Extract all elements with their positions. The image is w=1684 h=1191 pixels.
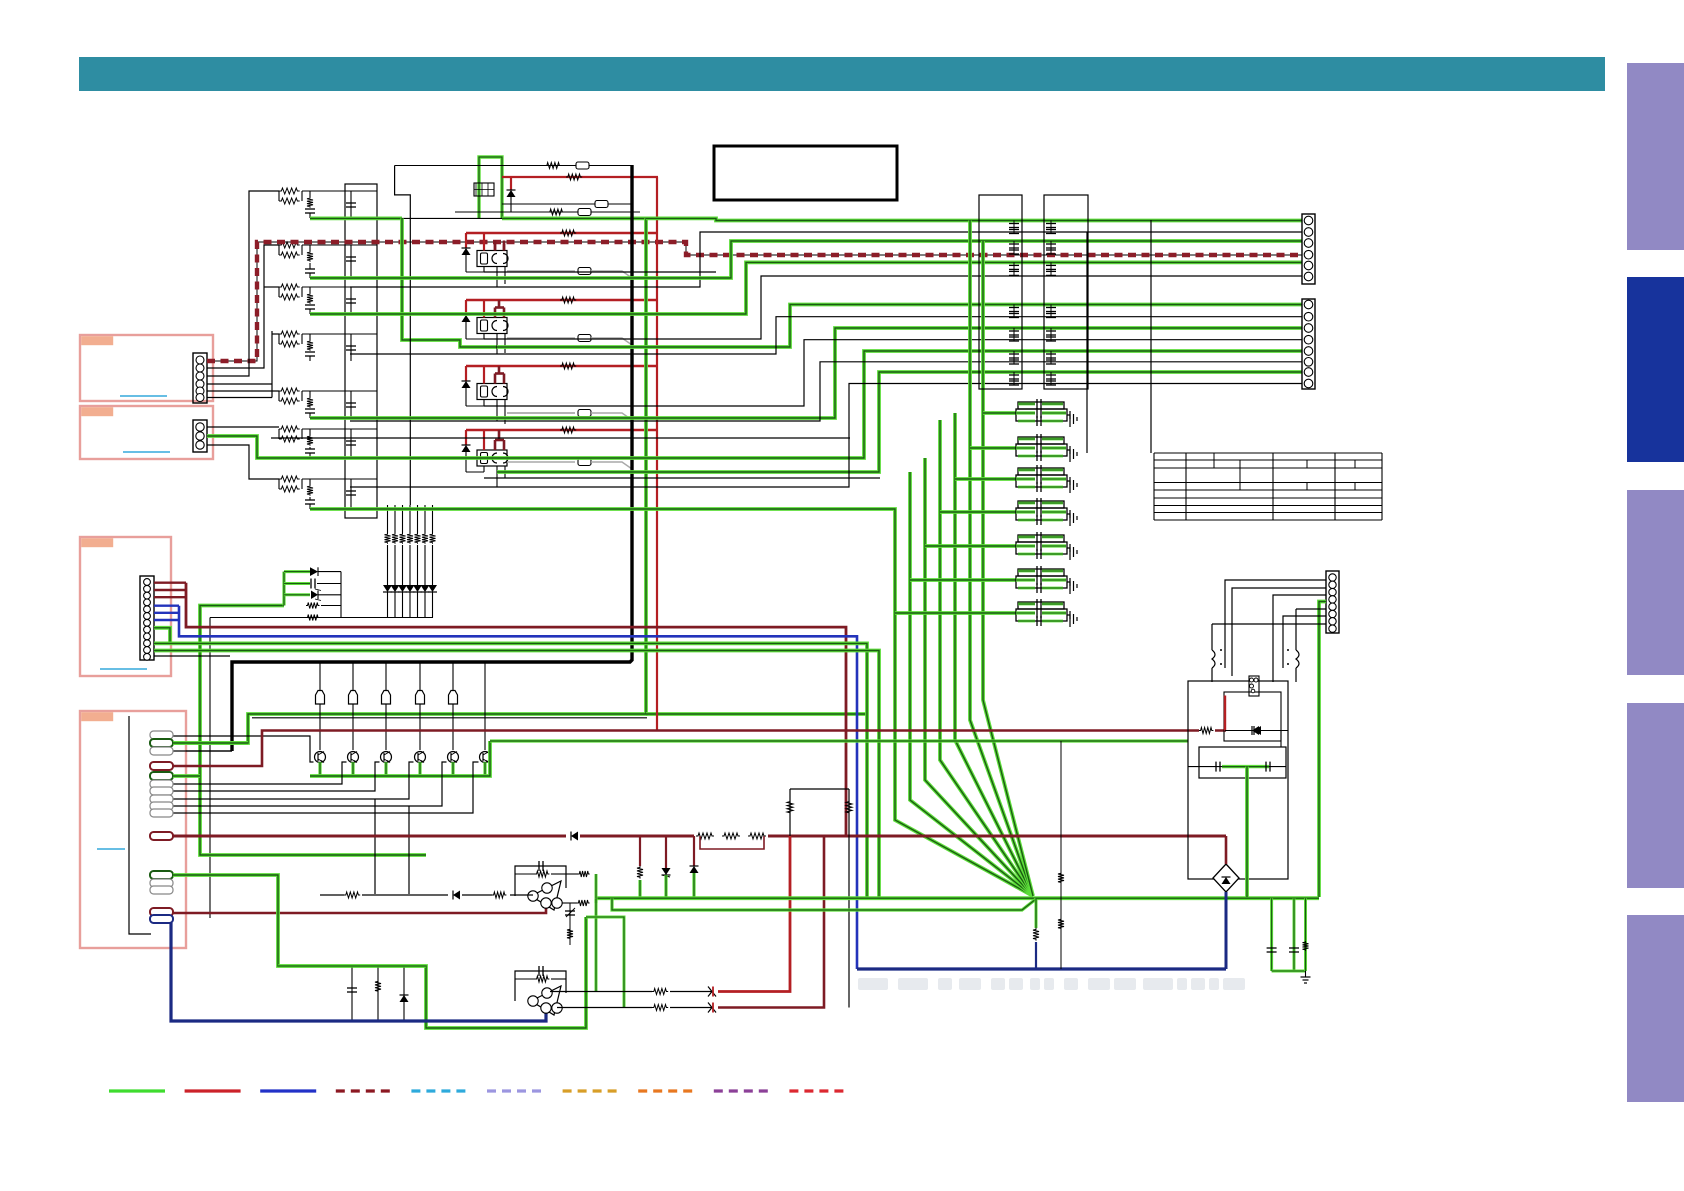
connector CN3 pin 4 [144,599,151,606]
FL3 ground [1067,481,1070,485]
protection zener [311,591,318,600]
upper connector pin 3 [1304,239,1313,248]
maroon wire CN4 system A [173,731,1226,767]
green bus y898 [596,896,1319,900]
filter tap 2 [970,446,1016,450]
RC ch2 node wire [302,244,377,246]
connector CN1 pin 3 [196,372,204,380]
relay ch1 maroon taps from dashed line [494,244,497,251]
connector CN3 pin 2 [144,585,151,592]
title box [714,146,897,200]
upper connector pin 1 [1304,216,1313,225]
sidebar tab 4 [1627,703,1684,888]
bank capacitor at x1051 row 2 [1050,241,1052,254]
protection collector [340,572,342,618]
sidebar tab 5 [1627,915,1684,1102]
snubber parts between green and navy [351,966,353,1021]
RC filter network ch5 resistor pair [279,388,300,394]
speaker relay RY2 box [477,318,507,334]
Q5 emitter to green rail [451,762,454,776]
protection diode [310,567,318,576]
shared NF net vertical [271,331,273,398]
callout box CN4 (pink) [80,711,186,948]
ladder leg 6 diode [421,585,430,592]
connector CN1 pin 4 [196,380,204,388]
relay RY1 gray sense wire [507,270,575,272]
ladder leg 5 wire [417,505,419,533]
CN7 wires [1225,580,1326,645]
green trunk row extension to fan side [646,712,867,716]
base wire Q4 [173,762,414,799]
op-amp IC1b feedback resistor [515,978,535,980]
RC ch7 bus capacitor [350,479,352,509]
teal header bar [79,57,1605,91]
navy wire from CN4 [171,923,546,1021]
connector CN3 pin 12 [144,653,151,660]
wire L8 black [350,384,1302,488]
EMI filter FL4 [1018,501,1064,508]
green drop from inner box [1245,767,1249,897]
bank capacitor at x1051 row 6 [1050,351,1052,364]
y837 reverse diode [566,830,580,843]
connector CN1 pin 2 [196,364,204,372]
ladder leg 4 wire [409,505,411,533]
bank capacitor at x1014 row 7 [1013,372,1015,385]
upper connector pin 5 [1304,261,1313,270]
fan wire 2 [910,472,1033,896]
RC ch1 node wire [302,190,377,192]
legend item 3 [260,1089,316,1092]
relay RY3 contact legs [496,400,498,422]
wire L5 green [310,351,1302,458]
filter tap 6 [910,578,1016,582]
red link inside block [1224,696,1226,731]
CN1 signal wires to RC column [207,245,279,368]
ladder leg 2 diode [391,585,400,592]
ladder leg 7 wire [432,505,434,533]
wire U3 green [310,241,1302,278]
staircase from muting row to ladder [395,166,411,506]
fan wire 5 [955,413,1033,896]
vertical wire x1151 [1150,220,1152,453]
maroon y731 diode [1247,725,1263,736]
filter tap 1 [983,411,1016,415]
driver diode line [1225,730,1281,732]
relay RY2 top red feed [466,299,658,301]
speaker connector lower [1302,299,1315,389]
relay RY4 contact legs [496,466,498,487]
upper connector pin 2 [1304,228,1313,237]
relay RY1 contact feeds (maroon) [494,241,497,251]
riser from fan point [1035,899,1038,928]
red dropper from feed A [718,836,790,992]
ladder leg 1 resistor [385,533,391,544]
CN3 ground stub [154,655,230,657]
op-amp IC1a feedback capacitor [515,866,566,896]
bank capacitor at x1051 row 3 [1050,262,1052,275]
green wire CN4 c [173,741,248,745]
CN2 green source wire [207,436,310,458]
RC ch5 node wire [302,390,377,392]
bank capacitor at x1014 row 1 [1013,221,1015,234]
CN7 pin 7 [1329,618,1336,625]
transistor Q6 [480,752,491,763]
bank capacitor at x1014 row 4 [1013,305,1015,318]
CN4 pin 10 [150,809,173,817]
legend item 9 [714,1089,770,1092]
bank capacitor at x1014 row 5 [1013,328,1015,341]
relay RY2 contact feeds (maroon) [494,308,497,318]
wire L7 green [497,372,1302,472]
EMI filter FL3 [1018,468,1064,475]
ladder leg 1 wire [387,505,389,533]
wire L6 black [350,362,1302,421]
RC ch1 bus capacitor [350,191,352,218]
connector CN1 pin 1 [196,356,204,364]
connector CN3 header [140,576,154,660]
black row full width upper [271,437,850,439]
transistor Q3 [381,752,392,763]
protection network green bus [200,606,426,856]
fan wire 3 [925,458,1033,896]
ladder leg 3 resistor [400,533,406,544]
black row ch1b stub [350,286,497,288]
CN4 pin 2 [150,739,173,747]
filter tap 7 [895,611,1016,615]
protection resistor [306,603,320,609]
RC ch6 bus capacitor [350,429,352,458]
gray sense rows 3/4 helper [507,412,575,414]
relay RY4 gray sense wire [507,461,575,463]
green row to fan1 [310,509,895,511]
base wire Q3 [173,762,380,791]
legend item 2 [185,1089,241,1092]
relay RY1 top red feed [466,232,658,234]
relay RY4 resistor leg [483,466,485,472]
FL4 ground [1067,514,1070,518]
connector CN3 pin 8 [144,626,151,633]
wire L4 black [484,340,1302,406]
driver line Q4 [419,662,421,750]
lower connector pin 2 [1304,312,1313,321]
connector CN2 header [193,420,207,452]
connector CN1 header [193,353,207,403]
choke L1 [1212,650,1215,668]
CN3 blue bundle wire [154,605,179,607]
green dropper to comparator row A [595,903,598,992]
long paired row y741 [490,739,1188,742]
parts table inner verticals [1213,453,1215,468]
bleeder chain x1061 [1060,741,1062,969]
relay RY1 coil diode [462,248,471,255]
black companion of green trunk [252,717,647,719]
connector CN3 pin 9 [144,633,151,640]
ladder leg 1 diode [383,585,392,592]
relay RY2 resistor leg [483,334,485,340]
ladder leg 7 diode [428,585,437,592]
filter tap 3 [955,477,1016,481]
maroon sense y913 to comparator [173,907,546,913]
ladder leg 6 wire [424,505,426,533]
bank capacitor at x1014 row 6 [1013,351,1015,364]
CN4 pin 6 [150,780,173,788]
connector CN3 pin 5 [144,606,151,613]
FL2 ground [1067,450,1070,454]
ladder leg 4 resistor [407,533,413,544]
filter tap 4 [940,510,1016,514]
base wire Q2 [173,762,347,784]
base wire Q1 [173,736,314,762]
maroon y731 resistor [1199,726,1215,735]
relay RY3 contact feeds (maroon) [494,374,497,384]
bracket inside CN4 [129,716,151,934]
CN4 pin 3 [150,747,173,755]
op-amp IC1a [531,881,561,910]
muting green output [310,216,402,220]
RC ch5 shunt resistor + capacitor [309,391,311,397]
legend item 8 [638,1089,694,1092]
RC filter network ch3 resistor pair [279,284,300,290]
wire U5 green [310,262,1302,314]
muting wire row1 (black) [395,165,632,167]
CN4 pin 16 [150,915,173,923]
green link 917 [586,917,624,1008]
collector drop wire [209,618,211,919]
red trunk [656,177,658,731]
relay RY2 contact legs [496,334,498,355]
protection capacitor [310,579,312,589]
vertical wire x1087 [1086,232,1088,453]
bank capacitor at x1051 row 7 [1050,372,1052,385]
RC filter network ch1 resistor pair [279,188,300,194]
wire L1 green [497,305,1302,348]
input capacitor bus box [345,184,377,518]
upper connector pin 6 [1304,272,1313,281]
FL1 ground [1067,415,1070,419]
driver line Q3 [385,662,387,750]
EMI filter FL7 [1018,602,1064,609]
ladder leg 5 diode [413,585,422,592]
lower connector pin 6 [1304,358,1313,367]
ladder leg 3 diode [398,585,407,592]
EMI filter FL5 [1018,535,1064,542]
output caps under green bus [1270,898,1273,971]
muting mini connector [474,183,494,196]
relay RY1 contact legs [496,267,498,288]
RC filter network ch6 resistor pair [279,426,300,432]
output block driver box [1224,692,1281,741]
IC1a feedback row to green riser [566,873,578,875]
parts table [1154,452,1382,454]
ladder leg 2 wire [394,505,396,533]
connector CN7 [1326,571,1339,633]
wire U2 black [497,232,1302,287]
EMI filter FL6 [1018,569,1064,576]
maroon dropper from feed B [718,836,824,1008]
relay RY4 top red feed [466,429,658,431]
y837 series resistors [694,828,768,844]
CN7 pin 4 [1329,596,1336,603]
CN7 green wire [1319,602,1326,898]
second fan feeder y910 [612,898,1036,910]
green y966 branch [278,964,426,967]
op-amp IC1a output row [320,894,533,896]
relay RY3 gray sense wire [507,412,575,414]
faint watermark [858,978,1245,990]
EMI filter FL1 [1018,402,1064,409]
CN7 pin 5 [1329,603,1336,610]
ladder leg 4 diode [406,585,415,592]
speaker relay RY3 box [477,384,507,400]
op-amp IC1a feedback resistor [515,873,535,875]
connector CN3 pin 1 [144,579,151,586]
CN7 pin 6 [1329,610,1336,617]
ladder leg 6 resistor [422,533,428,544]
connector CN2 pin 2 [196,432,204,440]
bias network [790,788,849,790]
filter tap 5 [925,544,1016,548]
lower connector pin 5 [1304,347,1313,356]
sidebar tab 2 (active dark blue) [1627,277,1684,462]
capacitor bank box 2 [1044,195,1088,389]
speaker relay RY4 box [477,450,507,466]
CN4 pin 14 [150,886,173,894]
muting wire row2 (red) [502,176,658,178]
relay RY3 resistor leg [483,400,485,407]
green drop to relay2 row [402,218,497,347]
RC filter network ch7 resistor pair [279,476,300,482]
callout box CN1 (pink) [80,335,213,401]
RC ch3 bus capacitor [350,287,352,314]
muting relay diode [510,177,512,190]
RC ch7 node wire [302,478,377,480]
CN4 pin 12 [150,871,173,879]
ladder leg 2 resistor [392,533,398,544]
lower connector pin 4 [1304,335,1313,344]
legend item 6 [487,1089,543,1092]
CN4 pin 4 [150,762,173,770]
Q6 emitter to green rail [483,762,486,776]
comparator output rows [550,991,713,993]
wire U6 black [484,276,1302,339]
y837 dropper 1 resistor [639,836,641,866]
driver line Q5 [452,662,454,750]
navy bus y969 [857,967,1226,970]
op-amp output jog to bus [561,902,577,904]
CN4 pin 8 [150,795,173,803]
CN7 pin 1 [1329,574,1336,581]
output block outer box [1188,681,1288,879]
RC ch3 node wire [302,286,377,288]
callout box CN3 (pink) [80,537,171,676]
RC ch3 shunt resistor + capacitor [309,287,311,293]
driver line Q6 [484,662,486,750]
extra droppers to comparator line [374,799,376,894]
maroon main feed y837 [173,835,1226,838]
legend item 7 [563,1089,619,1092]
connector CN1 pin 5 [196,387,204,395]
CN2 signal wires to RC column [207,426,279,428]
sidebar tab 1 [1627,63,1684,250]
RC ch6 shunt resistor + capacitor [309,429,311,435]
legend item 4 [336,1089,392,1092]
RC filter network ch2 resistor pair [279,242,300,248]
connector CN1 pin 6 [196,394,204,402]
CN3 green wires [154,628,170,644]
Q2 emitter to green rail [351,762,354,776]
wire U1 green [646,218,1302,220]
wire L2 black [350,317,1302,354]
ladder leg 7 resistor [430,533,436,544]
speaker connector upper [1302,214,1315,284]
op-amp IC1b [531,986,561,1015]
green trunk from muting [172,218,646,743]
Q1 emitter to green rail [318,762,321,776]
CN4 pin 1 [150,731,173,739]
CN3 maroon bundle wire [154,582,186,584]
RC ch2 bus capacitor [350,245,352,278]
transistor Q2 [348,752,359,763]
rectifier diamond [1213,864,1239,892]
bank capacitor at x1051 row 5 [1050,328,1052,341]
RC ch6 node wire [302,428,377,430]
CN7 pin 2 [1329,581,1336,588]
test point cap [569,903,571,945]
green wire CN4 b [173,875,586,1028]
thermal sensor symbols [708,987,716,997]
relay RY2 coil diode [462,315,471,322]
legend item 1 [109,1089,165,1092]
speaker relay RY1 box [477,251,507,267]
green wire CN4 a [173,774,200,778]
relay RY2 gray sense wire [507,337,575,339]
capacitor bank box 1 [979,195,1022,389]
muting relay block outline (green) [479,157,502,219]
lower connector pin 7 [1304,368,1313,377]
Q4 emitter to green rail [418,762,421,776]
transistor Q1 [315,752,326,763]
relay RY3 top red feed [466,365,658,367]
lower connector pin 3 [1304,324,1313,333]
bank capacitor at x1014 row 2 [1013,241,1015,254]
fan wire 4 [940,420,1033,896]
legend item 10 [789,1089,845,1092]
FL7 ground [1067,615,1070,619]
CN1 dashed remote wire [207,242,1302,361]
relay RY4 coil diode [462,445,471,452]
relay RY3 coil diode [462,381,471,388]
CN4 pin 9 [150,802,173,810]
y837 dropper 3 diode [693,836,695,866]
CN4 pin 15 [150,908,173,916]
legend item 5 [411,1089,467,1092]
lower connector pin 1 [1304,300,1313,309]
ladder leg 5 resistor [415,533,421,544]
fan wire 7 [983,241,1033,896]
output block inner box [1199,747,1286,778]
transistor Q5 [448,752,459,763]
wire L3 green [310,328,1302,418]
driver line Q1 [319,662,321,750]
relay RY1 resistor leg [483,267,485,273]
Q3 emitter to green rail [384,762,387,776]
CN4 pin 5 [150,772,173,780]
inner box green link [1188,766,1286,768]
ladder collector bus [210,617,433,619]
muting wire row4 (black) [455,211,640,213]
black row ch4a [484,477,880,479]
bank capacitor at x1051 row 1 [1050,221,1052,234]
